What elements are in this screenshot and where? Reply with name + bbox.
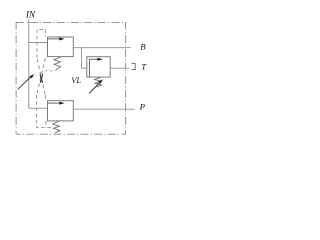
valve VL adjustable spring (95, 77, 102, 87)
valve VL square (87, 57, 110, 77)
valve V2 spring (53, 121, 60, 133)
valve V2 dashed cartridge outline (37, 95, 53, 128)
enclosure dash-dot border (16, 22, 126, 134)
svg-text:VL: VL (71, 76, 81, 85)
wire: P line right segment to port P (73, 108, 134, 110)
valve V2 square (48, 101, 74, 121)
wire: drop from B line to valve VL (82, 48, 87, 68)
valve V1 spring (54, 57, 61, 70)
valve V1 dashed cartridge outline (37, 29, 46, 58)
dashed linkage diagonal right (crosses to form X) (37, 58, 46, 95)
wire: P line left segment (28, 107, 47, 109)
svg-text:T: T (141, 62, 147, 72)
valve VL spring adjustment arrow (89, 83, 100, 94)
svg-text:P: P (139, 102, 146, 112)
valve VL flow arrow (89, 58, 97, 60)
adjustment arrow (setting) (18, 77, 31, 89)
valve V1 flow arrow (48, 38, 59, 40)
wire: supply vertical from IN (28, 19, 30, 108)
wire: valve1 input (29, 42, 48, 44)
wire: B line from V1 output to port B (73, 47, 131, 49)
port T plug bracket (131, 63, 135, 69)
dashed bottom hint of V1 outline (45, 70, 53, 72)
dashed linkage diagonal left (crosses to form X) (37, 59, 45, 95)
wire: T line from VL to port T (110, 67, 129, 69)
svg-text:IN: IN (25, 9, 36, 19)
svg-text:B: B (140, 42, 146, 52)
node X: solid crossing strokes (40, 74, 43, 83)
valve V2 flow arrow (48, 102, 59, 104)
valve VL internal vertical (88, 59, 90, 77)
valve V1 square (48, 37, 74, 57)
